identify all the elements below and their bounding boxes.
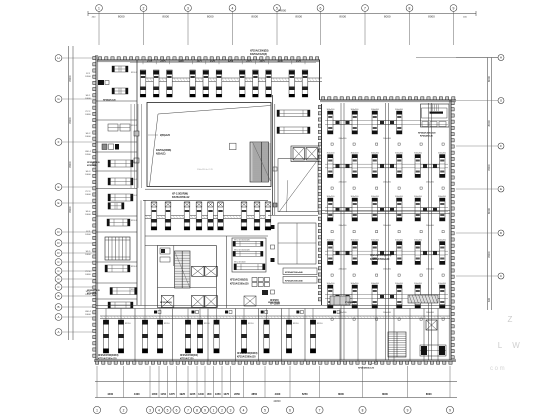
svg-text:8000: 8000 (384, 15, 391, 19)
fan coil unit core band left 4 (196, 202, 202, 230)
svg-text:XF-2.5 D500x320: XF-2.5 D500x320 (234, 239, 251, 241)
svg-text:XF25A/C500(D2): XF25A/C500(D2) (230, 279, 248, 282)
svg-text:8000: 8000 (295, 15, 302, 19)
fan coil unit core band right 3 (265, 202, 271, 230)
vertical duct run 2 east wing (386, 103, 389, 360)
svg-text:KF25A/C50x12: KF25A/C50x12 (172, 196, 190, 199)
left dimension column with grid bubbles H-A (55, 46, 96, 340)
svg-text:9: 9 (407, 408, 409, 412)
svg-text:KF25A/C500x040: KF25A/C500x040 (285, 271, 303, 274)
svg-text:1350: 1350 (152, 392, 158, 396)
svg-text:XF25A/C120: XF25A/C120 (103, 99, 116, 102)
svg-text:FP-6.3: FP-6.3 (131, 266, 138, 268)
svg-text:3: 3 (230, 408, 232, 412)
svg-text:D500: D500 (85, 76, 91, 78)
SE label (345, 302, 355, 304)
svg-text:1225: 1225 (190, 392, 196, 396)
svg-text:KF25A/C500x120: KF25A/C500x120 (370, 258, 390, 261)
svg-text:300x200: 300x200 (327, 152, 336, 154)
AHU NW room lower (112, 88, 128, 94)
svg-text:8: 8 (362, 408, 364, 412)
svg-text:1: 1 (98, 6, 100, 10)
svg-text:1350: 1350 (215, 392, 221, 396)
small equipment cluster west (102, 144, 119, 150)
svg-text:JSF-1: JSF-1 (85, 151, 92, 153)
svg-text:KF25A/C500x120: KF25A/C500x120 (237, 356, 256, 359)
svg-text:KF25A/C500x040: KF25A/C500x040 (285, 280, 303, 283)
AHU cluster col2 row4 (371, 239, 404, 270)
duct shaft with ramp line (273, 159, 318, 212)
corridor risers (154, 311, 340, 314)
SE block partitions (340, 309, 438, 362)
supply duct in core band (145, 216, 268, 219)
machine room mid (278, 223, 316, 264)
svg-text:300x200: 300x200 (351, 239, 360, 241)
south exterior wall (94, 359, 456, 364)
AHU west G1 (110, 288, 137, 295)
west margin dark labels (87, 161, 100, 295)
AHU cluster col1 row2 (327, 152, 360, 183)
svg-text:FP-6.3: FP-6.3 (131, 72, 138, 74)
svg-text:240x200: 240x200 (339, 138, 348, 140)
svg-text:300x200: 300x200 (395, 109, 404, 111)
svg-text:2375: 2375 (147, 61, 153, 63)
svg-text:8000: 8000 (487, 164, 491, 171)
svg-text:L: L (498, 341, 503, 350)
svg-text:SF-1: SF-1 (86, 95, 92, 97)
svg-text:300x200: 300x200 (351, 196, 360, 198)
NW room partition wall (136, 60, 138, 104)
right dimension column with grid bubbles H-C (456, 55, 504, 311)
svg-text:4200: 4200 (278, 60, 284, 63)
NW wall riser (98, 80, 109, 85)
AHU cluster col1 row3 (327, 196, 360, 227)
svg-text:KF25A/C500x120: KF25A/C500x120 (98, 358, 117, 361)
AHU west G2 (108, 302, 133, 308)
fan coil unit FP-9 top band (266, 70, 272, 97)
svg-text:FP-10: FP-10 (204, 323, 210, 325)
AHU cluster col2 row2 (371, 152, 404, 183)
svg-text:300x200: 300x200 (371, 283, 380, 285)
label block below atrium (172, 193, 190, 200)
svg-text:5250: 5250 (302, 392, 308, 396)
core partition walls (145, 200, 268, 308)
fan coil unit core band left 5 (208, 202, 214, 230)
svg-text:4: 4 (243, 408, 245, 412)
svg-text:8000: 8000 (207, 15, 214, 19)
AHU cluster col1 row4 (327, 239, 360, 270)
svg-text:240x200: 240x200 (339, 269, 348, 271)
atrium duct labels (148, 134, 171, 156)
svg-text:44800: 44800 (278, 9, 287, 13)
NE fan room (418, 104, 449, 137)
elevator core E2 (205, 266, 218, 276)
svg-text:2375: 2375 (197, 61, 203, 63)
svg-text:2250: 2250 (234, 392, 240, 396)
south label block 2 (180, 354, 198, 361)
svg-text:1375: 1375 (223, 392, 229, 396)
svg-text:9: 9 (449, 408, 451, 412)
svg-text:FP-6.3: FP-6.3 (131, 289, 138, 291)
connecting wall between wings at axis 6 (319, 60, 321, 100)
svg-text:8000: 8000 (428, 15, 435, 19)
fan coil unit FP-1 top band (140, 70, 146, 97)
svg-text:8000: 8000 (487, 207, 491, 214)
south label block 3 (237, 352, 258, 359)
svg-text:240x200: 240x200 (339, 225, 348, 227)
svg-text:FP-10: FP-10 (317, 323, 323, 325)
svg-text:8000: 8000 (339, 15, 346, 19)
svg-text:H: H (500, 56, 502, 60)
svg-text:2375: 2375 (160, 61, 166, 63)
dimension string below axis H (130, 60, 316, 64)
svg-text:XF25A/C120: XF25A/C120 (87, 161, 100, 164)
svg-text:D400: D400 (85, 314, 91, 316)
boxed label mid 2 (283, 277, 317, 284)
mid corridor walls (273, 95, 275, 215)
svg-text:300x200: 300x200 (327, 109, 336, 111)
fan coil unit FP-8 top band (253, 70, 259, 97)
svg-text:D500: D500 (85, 234, 91, 236)
fan coil unit FP-6 top band (216, 70, 222, 97)
svg-text:FP-10: FP-10 (125, 323, 131, 325)
svg-text:1925: 1925 (179, 392, 185, 396)
svg-text:2375: 2375 (296, 61, 302, 63)
AHU cluster col3 row4 (414, 239, 447, 270)
svg-text:A: A (57, 330, 59, 334)
svg-text:2: 2 (221, 408, 223, 412)
svg-text:F: F (58, 140, 60, 144)
south corridor duct (100, 316, 450, 319)
fan coil unit west D2 (108, 178, 133, 185)
svg-text:SF-5: SF-5 (86, 251, 92, 253)
faint watermark (490, 315, 520, 372)
fan coil unit south room 1 (103, 309, 108, 354)
supply air duct along axis H corridor (140, 78, 322, 82)
fan coil unit core band right 1 (241, 202, 247, 230)
svg-text:8000: 8000 (487, 75, 491, 82)
svg-text:4: 4 (158, 408, 160, 412)
svg-text:1150: 1150 (160, 392, 166, 396)
svg-text:44800: 44800 (273, 399, 281, 403)
fan coil unit south room 11 (310, 309, 315, 354)
svg-text:KF25A/C500x120: KF25A/C500x120 (230, 282, 249, 285)
svg-text:5: 5 (264, 408, 266, 412)
svg-text:8: 8 (196, 408, 198, 412)
AHU cluster col3 row5 (414, 283, 447, 314)
label below south wall (358, 361, 378, 370)
svg-text:H: H (57, 56, 59, 60)
svg-text:9: 9 (204, 408, 206, 412)
svg-text:E: E (57, 185, 59, 189)
svg-text:B: B (57, 294, 59, 298)
svg-text:PY-3: PY-3 (86, 191, 91, 193)
svg-text:6: 6 (176, 408, 178, 412)
svg-text:8000: 8000 (68, 117, 72, 124)
elevator core E5 (161, 296, 174, 308)
svg-text:300x200: 300x200 (414, 152, 423, 154)
svg-text:SF-2: SF-2 (86, 133, 92, 135)
svg-text:E: E (57, 201, 59, 205)
svg-text:4200: 4200 (178, 60, 184, 63)
svg-text:KF25A(Z): KF25A(Z) (87, 164, 97, 167)
svg-text:XF25A/C500x120: XF25A/C500x120 (418, 131, 436, 134)
svg-text:SF-3: SF-3 (86, 171, 92, 173)
svg-text:300x200: 300x200 (438, 239, 447, 241)
west corridor line (140, 200, 142, 305)
fan coil unit core band right 2 (254, 202, 260, 230)
label above north wall (250, 50, 269, 57)
svg-text:4200: 4200 (228, 60, 234, 63)
svg-text:240x200: 240x200 (383, 269, 392, 271)
svg-text:8000: 8000 (162, 15, 169, 19)
label mid bottom (270, 300, 280, 306)
svg-text:c o m: c o m (490, 366, 505, 372)
svg-text:950: 950 (207, 392, 212, 396)
svg-text:FP-10: FP-10 (248, 323, 254, 325)
svg-text:8000: 8000 (426, 392, 432, 396)
west wing inner corridor wall (136, 104, 138, 305)
svg-text:240x200: 240x200 (426, 182, 435, 184)
elevator bank enclosure (291, 146, 319, 162)
AHU mid corridor 1 (277, 110, 310, 117)
fan coil unit west D3 (108, 194, 133, 201)
svg-text:D400: D400 (85, 98, 91, 100)
svg-text:W: W (512, 341, 520, 350)
fan coil unit FP-5 top band (203, 70, 209, 97)
svg-text:D400: D400 (85, 254, 91, 256)
boxed label mid 1 (283, 268, 317, 275)
svg-text:D400: D400 (85, 174, 91, 176)
fan coil unit south room 4 (157, 309, 162, 354)
svg-text:8000: 8000 (382, 392, 388, 396)
svg-text:XF25A/C120: XF25A/C120 (87, 289, 100, 292)
heat exchanger battery west wing (105, 237, 130, 260)
floor grid markers east wing (331, 143, 444, 320)
svg-text:FP-6.3: FP-6.3 (131, 220, 138, 222)
svg-text:FP-10: FP-10 (164, 323, 170, 325)
svg-text:600: 600 (488, 297, 491, 302)
svg-text:8000: 8000 (487, 120, 491, 127)
svg-text:240x200: 240x200 (426, 269, 435, 271)
corridor label 3 (345, 302, 357, 304)
svg-text:300x200: 300x200 (371, 109, 380, 111)
svg-text:D400: D400 (85, 194, 91, 196)
AHU cluster col2 row5 (371, 283, 404, 314)
svg-text:FP-6.3: FP-6.3 (131, 195, 138, 197)
svg-text:2: 2 (123, 408, 125, 412)
fan coil unit south room 9 (264, 309, 269, 354)
svg-text:KF25A/C120: KF25A/C120 (420, 134, 434, 137)
bottom dimension lines with grid bubbles (93, 366, 457, 414)
fan coil unit FP-3 top band (167, 70, 173, 97)
svg-text:300x200: 300x200 (351, 283, 360, 285)
AHU cluster col2 row3 (371, 196, 404, 227)
svg-text:300x200: 300x200 (327, 283, 336, 285)
svg-text:XF25A/C500(D2): XF25A/C500(D2) (180, 354, 198, 357)
svg-text:240x200: 240x200 (426, 225, 435, 227)
svg-text:8000: 8000 (487, 251, 491, 258)
SE AHU (420, 345, 446, 356)
fan coil unit west E1 (108, 203, 124, 210)
svg-text:240x200: 240x200 (426, 312, 435, 314)
west margin annotations (85, 73, 92, 316)
svg-text:300x200: 300x200 (371, 152, 380, 154)
svg-text:300x200: 300x200 (438, 283, 447, 285)
svg-text:2375: 2375 (210, 61, 216, 63)
svg-text:6: 6 (320, 6, 322, 10)
svg-text:4400: 4400 (134, 392, 140, 396)
svg-text:XF-2.5 D500: XF-2.5 D500 (234, 262, 246, 264)
fan coil unit core band left 1 (151, 202, 157, 230)
south room partitions (135, 309, 305, 362)
svg-text:4400: 4400 (275, 392, 281, 396)
svg-text:XF25(D500): XF25(D500) (160, 302, 172, 304)
corridor wall below atrium (143, 199, 268, 201)
svg-text:300x200: 300x200 (395, 152, 404, 154)
svg-text:9: 9 (453, 6, 455, 10)
svg-text:240x200: 240x200 (339, 182, 348, 184)
svg-text:XF25/D500x120: XF25/D500x120 (358, 368, 375, 370)
svg-text:PY-2: PY-2 (86, 111, 91, 113)
fan coil unit core band left 3 (184, 202, 190, 230)
svg-text:8000: 8000 (68, 206, 72, 213)
svg-text:3: 3 (187, 6, 189, 10)
south label block 1 (98, 354, 119, 361)
svg-text:300x200: 300x200 (414, 239, 423, 241)
elevator M2 (306, 148, 318, 161)
AHU core right 1 (233, 241, 263, 246)
svg-text:300x200: 300x200 (327, 239, 336, 241)
svg-text:300x200: 300x200 (438, 196, 447, 198)
main stair east of atrium (250, 142, 271, 182)
east exterior wall (449, 100, 454, 360)
AHU NW room upper (112, 66, 128, 72)
elevator core E3 (192, 296, 205, 308)
west wing room partitions (96, 101, 137, 299)
svg-text:1: 1 (96, 408, 98, 412)
fan coil unit south room 5 (185, 309, 190, 354)
svg-text:KF25A/C120(Z): KF25A/C120(Z) (250, 53, 267, 56)
svg-text:SF-4: SF-4 (86, 211, 92, 213)
east wing label block (370, 254, 391, 261)
svg-text:300x200: 300x200 (327, 196, 336, 198)
svg-text:D500: D500 (85, 154, 91, 156)
svg-text:XF25(D500): XF25(D500) (268, 302, 280, 304)
fan coil unit core band left 6 (218, 202, 224, 230)
svg-text:PY-4: PY-4 (86, 271, 91, 273)
core upper-left room equipment (160, 248, 170, 262)
svg-text:3: 3 (149, 408, 151, 412)
AHU west F1 (105, 265, 130, 272)
svg-text:XF25A/C500(D2F3): XF25A/C500(D2F3) (370, 254, 391, 257)
fan coil unit FP-7 top band (239, 70, 245, 97)
svg-text:8000: 8000 (68, 161, 72, 168)
west wing unit tags (131, 72, 138, 291)
svg-text:D400: D400 (85, 214, 91, 216)
svg-text:2375: 2375 (246, 61, 252, 63)
vertical duct run 3 east wing (429, 103, 432, 360)
svg-text:N25A(C): N25A(C) (156, 153, 166, 156)
svg-text:E: E (500, 187, 502, 191)
fan coil unit FP-10 top band (289, 70, 295, 97)
branch ducts across east wing (325, 121, 448, 299)
axis E duct east wing (322, 211, 450, 214)
svg-text:4: 4 (232, 6, 234, 10)
fan coil unit FP-11 top band (302, 70, 308, 97)
lift lobby rooms (232, 238, 266, 272)
axis H leader to right bubble (416, 57, 498, 59)
svg-text:300x200: 300x200 (438, 152, 447, 154)
fan coil unit west E2 (107, 219, 130, 226)
svg-text:300x200: 300x200 (351, 109, 360, 111)
svg-text:300x200: 300x200 (414, 283, 423, 285)
NW room label bar (103, 99, 116, 102)
core AHU tags (234, 239, 251, 263)
svg-text:300x200: 300x200 (395, 196, 404, 198)
svg-text:Z: Z (508, 315, 513, 324)
core stair 1 (175, 251, 191, 288)
equipment boxes west room 2 (108, 124, 130, 131)
svg-text:2375: 2375 (259, 61, 265, 63)
fan coil unit south room 7 (214, 309, 219, 354)
corridor label 1 (160, 302, 172, 304)
svg-text:XF25A/C500(D2F3): XF25A/C500(D2F3) (237, 352, 258, 355)
fan coil unit south room 8 (241, 309, 246, 354)
riser chase west of atrium (131, 104, 142, 188)
svg-text:2: 2 (143, 6, 145, 10)
elevator M1 (293, 148, 305, 161)
elevator core E4 (205, 296, 218, 308)
core label block (230, 279, 249, 286)
svg-text:150x120 h+2.70: 150x120 h+2.70 (197, 169, 214, 171)
west exterior wall (93, 55, 98, 360)
elevator core E1 (192, 266, 205, 276)
AHU cluster col3 row2 (414, 152, 447, 183)
mid corridor floor line (268, 215, 318, 217)
svg-text:240x200: 240x200 (383, 182, 392, 184)
svg-text:KF25A(Z): KF25A(Z) (87, 292, 97, 295)
svg-text:7: 7 (364, 6, 366, 10)
corridor label 2 (268, 302, 280, 304)
atrium / garage void (145, 103, 271, 190)
svg-text:B: B (57, 305, 59, 309)
svg-text:D630: D630 (85, 114, 91, 116)
svg-text:1: 1 (213, 408, 215, 412)
svg-text:D630: D630 (85, 274, 91, 276)
SE dark unit row (408, 295, 438, 303)
fan coil unit south room 3 (142, 309, 147, 354)
fan coil unit west D1 (108, 160, 133, 167)
svg-text:8000: 8000 (68, 75, 72, 82)
svg-text:F: F (500, 144, 502, 148)
vertical duct run 1 east wing (341, 103, 344, 360)
svg-text:XF25A/C500(D2F3): XF25A/C500(D2F3) (98, 354, 119, 357)
svg-text:XF25A/C500(D2): XF25A/C500(D2) (250, 50, 269, 53)
svg-text:7: 7 (187, 408, 189, 412)
svg-text:2(B)x120: 2(B)x120 (160, 134, 171, 137)
fan coil unit south room 10 (286, 309, 291, 354)
svg-text:300x200: 300x200 (351, 152, 360, 154)
svg-text:JSF-2: JSF-2 (85, 311, 92, 313)
valve cluster core (252, 278, 269, 287)
svg-text:300x200: 300x200 (371, 196, 380, 198)
svg-text:4400: 4400 (107, 392, 113, 396)
svg-text:240x200: 240x200 (383, 225, 392, 227)
AHU mid corridor 2 (277, 127, 310, 134)
mid corridor risers (271, 225, 275, 294)
svg-text:300x200: 300x200 (395, 239, 404, 241)
